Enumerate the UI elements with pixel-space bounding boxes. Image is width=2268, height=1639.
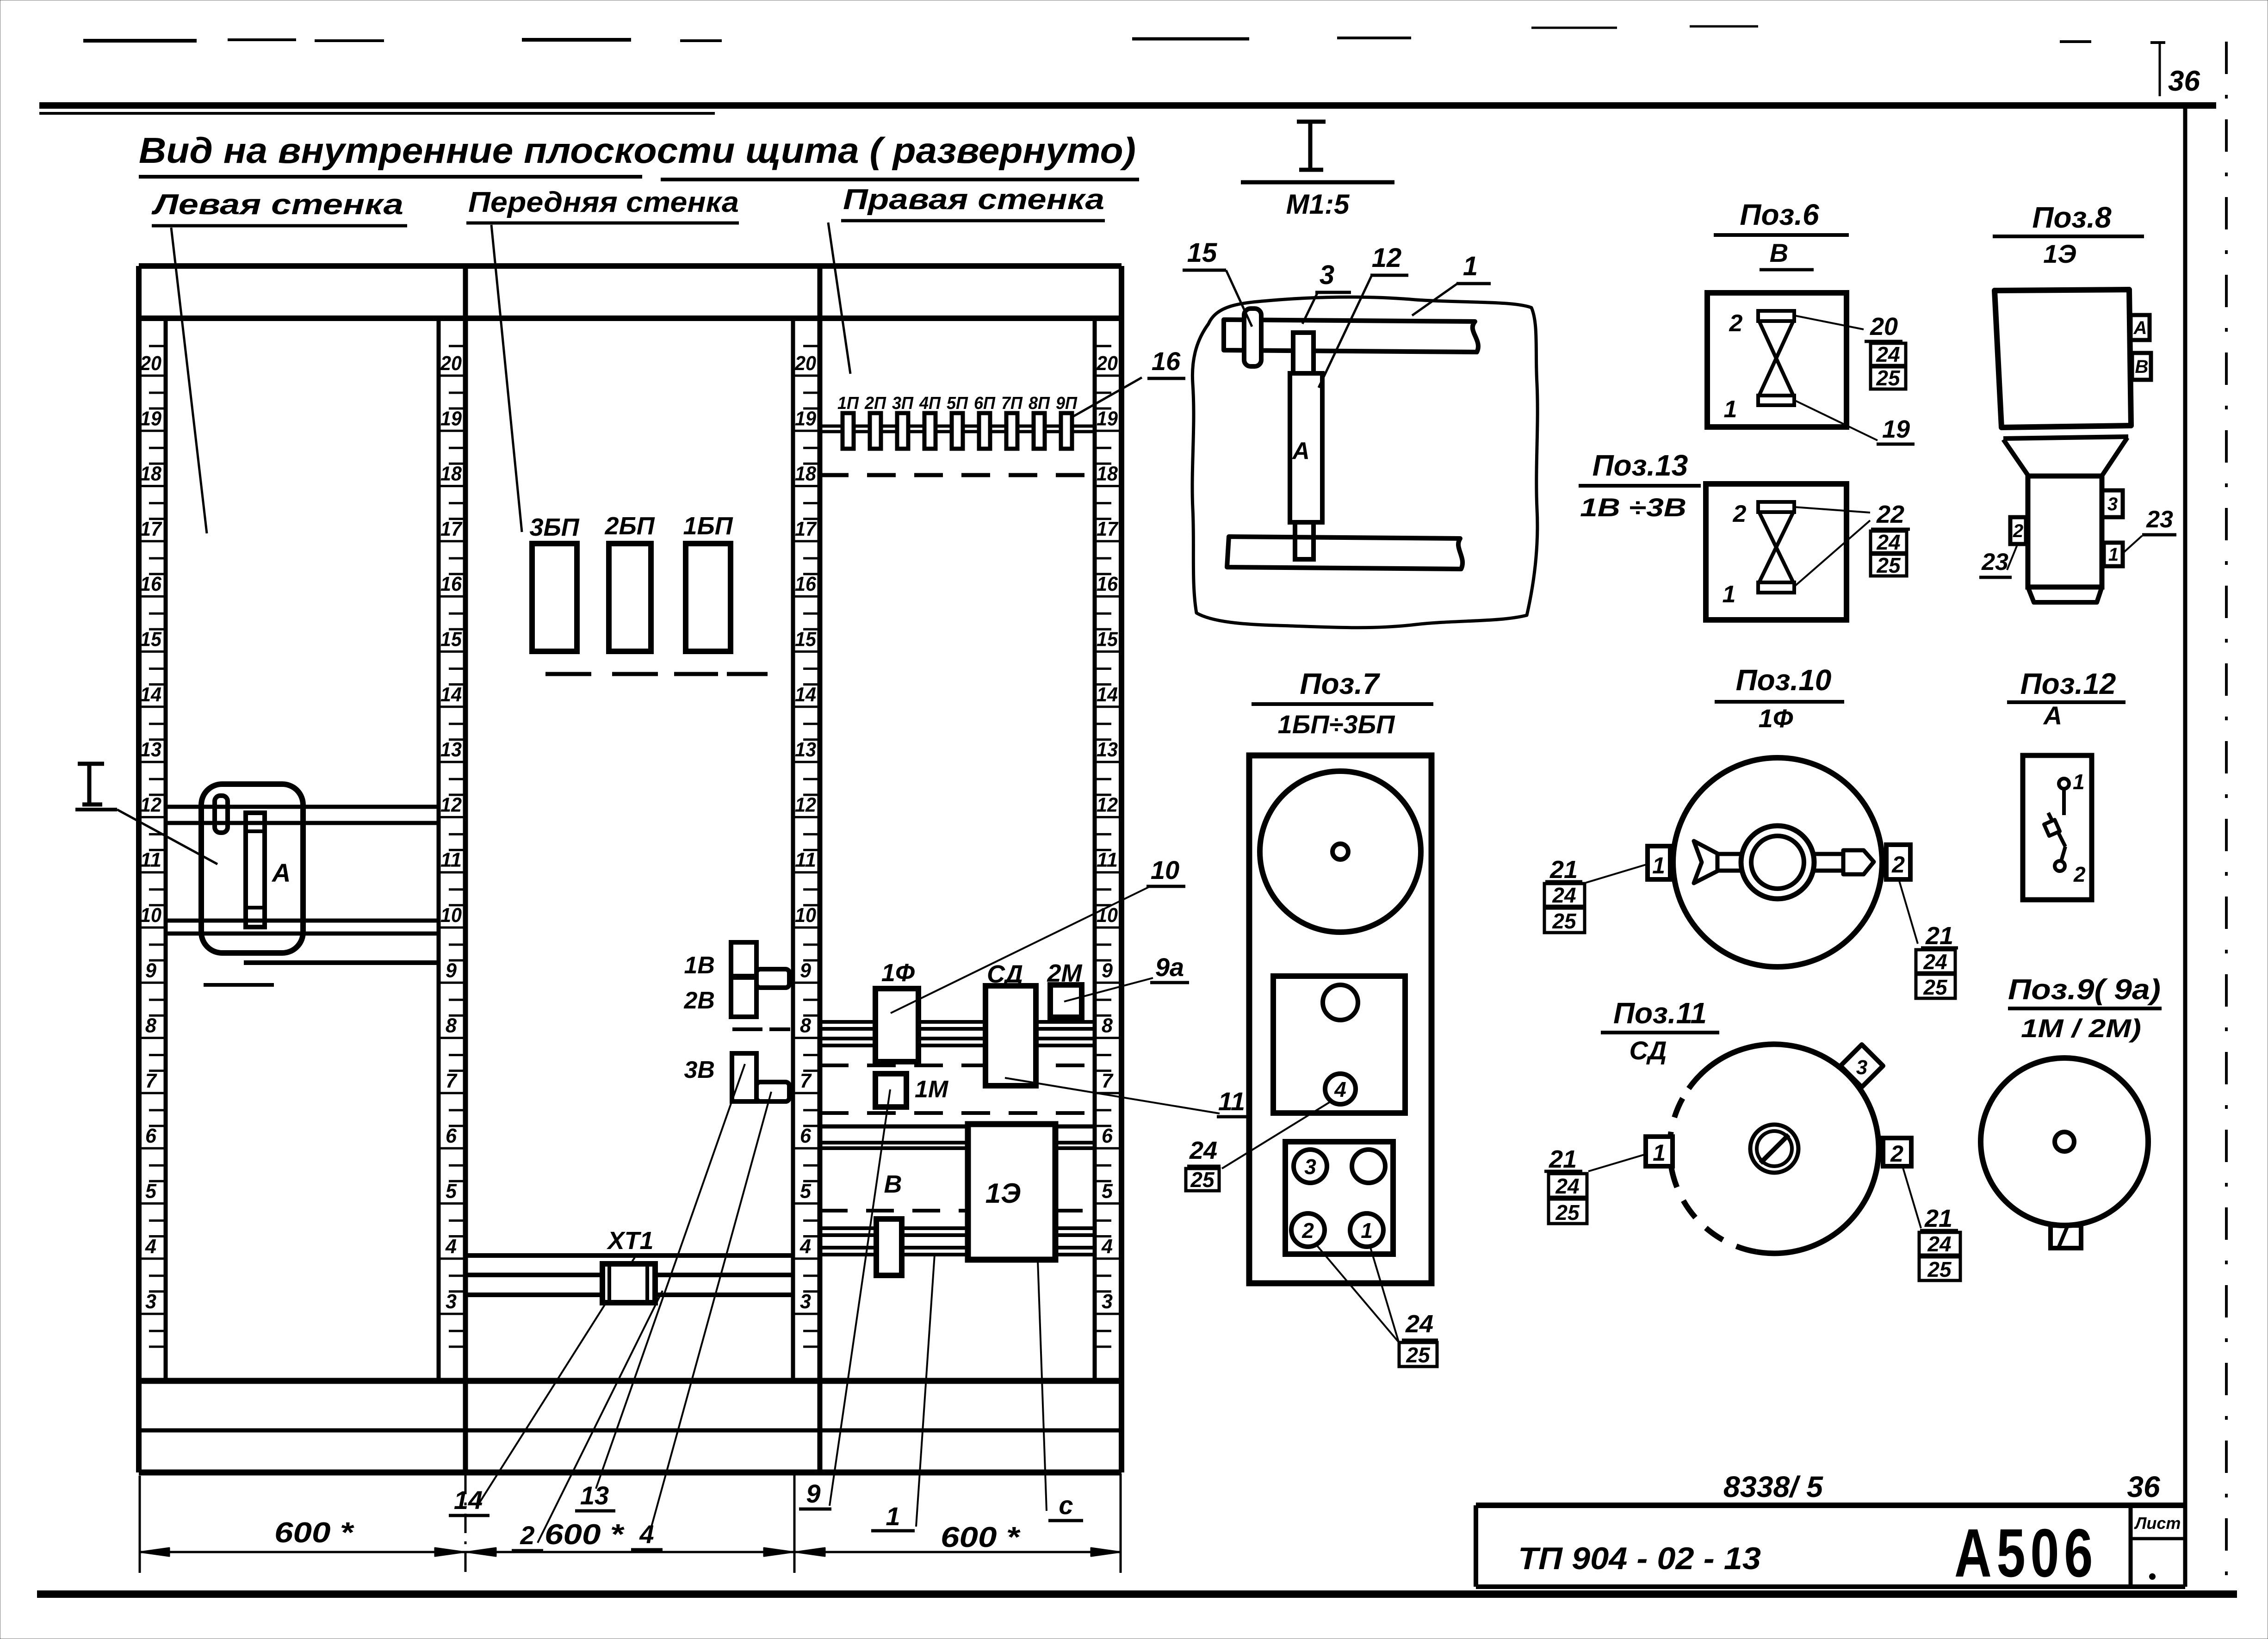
svg-text:4: 4 (1101, 1235, 1113, 1258)
svg-text:13: 13 (795, 738, 816, 761)
svg-text:В: В (2135, 357, 2149, 377)
svg-text:1М / 2М): 1М / 2М) (2021, 1014, 2141, 1043)
svg-text:3БП: 3БП (529, 513, 579, 541)
svg-text:Поз.11: Поз.11 (1613, 996, 1707, 1030)
svg-text:4: 4 (639, 1520, 654, 1549)
svg-text:14: 14 (440, 683, 462, 706)
svg-text:2: 2 (520, 1521, 534, 1550)
svg-text:3: 3 (446, 1290, 457, 1313)
svg-text:7П: 7П (1001, 394, 1023, 413)
svg-text:4: 4 (445, 1235, 457, 1258)
svg-text:2: 2 (1890, 1141, 1903, 1167)
svg-text:8: 8 (1102, 1014, 1113, 1037)
svg-text:24: 24 (1927, 1232, 1951, 1256)
svg-text:5: 5 (446, 1180, 457, 1203)
svg-text:11: 11 (1218, 1087, 1245, 1116)
svg-text:18: 18 (1097, 463, 1118, 485)
svg-text:14: 14 (140, 683, 161, 706)
svg-text:13: 13 (440, 738, 462, 761)
svg-text:25: 25 (1923, 975, 1948, 999)
svg-text:6П: 6П (974, 394, 996, 413)
svg-text:25: 25 (1876, 553, 1901, 577)
svg-text:7: 7 (800, 1070, 812, 1092)
svg-text:9: 9 (446, 959, 457, 982)
svg-text:25: 25 (1927, 1257, 1952, 1281)
svg-text:21: 21 (1924, 1205, 1952, 1232)
svg-text:4: 4 (145, 1235, 156, 1258)
svg-text:6: 6 (800, 1125, 812, 1147)
svg-text:1: 1 (1361, 1218, 1373, 1243)
svg-text:1БП: 1БП (683, 512, 733, 540)
svg-text:25: 25 (1552, 909, 1577, 933)
svg-text:12: 12 (1372, 243, 1402, 273)
svg-text:А506: А506 (1954, 1515, 2098, 1591)
svg-text:14: 14 (1097, 683, 1118, 706)
svg-text:Поз.6: Поз.6 (1740, 198, 1819, 231)
svg-text:19: 19 (1097, 407, 1118, 430)
svg-text:1: 1 (1652, 853, 1665, 878)
svg-text:ХТ1: ХТ1 (606, 1227, 653, 1255)
svg-text:21: 21 (1549, 1145, 1577, 1173)
svg-text:13: 13 (580, 1481, 609, 1510)
svg-text:17: 17 (140, 518, 162, 540)
svg-text:1Ф: 1Ф (1759, 704, 1793, 733)
svg-text:3: 3 (1304, 1155, 1316, 1179)
svg-text:2: 2 (1301, 1218, 1314, 1243)
svg-text:3: 3 (2107, 494, 2118, 514)
svg-text:Левая стенка: Левая стенка (151, 189, 403, 221)
svg-text:17: 17 (440, 518, 463, 540)
svg-text:11: 11 (440, 849, 462, 872)
svg-text:7: 7 (446, 1070, 458, 1092)
svg-text:3: 3 (1856, 1056, 1867, 1079)
svg-text:8: 8 (145, 1014, 157, 1037)
svg-text:Передняя стенка: Передняя стенка (468, 186, 739, 218)
svg-text:3: 3 (800, 1290, 811, 1313)
svg-text:16: 16 (440, 573, 462, 595)
svg-text:9: 9 (1102, 959, 1113, 982)
svg-text:15: 15 (140, 628, 161, 651)
svg-text:8: 8 (800, 1014, 812, 1037)
svg-text:2: 2 (2013, 521, 2023, 541)
svg-text:25: 25 (1406, 1343, 1431, 1367)
svg-text:20: 20 (140, 352, 161, 375)
svg-text:1: 1 (1724, 396, 1737, 423)
svg-text:19: 19 (140, 407, 161, 430)
svg-text:ТП 904 - 02 - 13: ТП 904 - 02 - 13 (1518, 1541, 1761, 1576)
svg-text:600 *: 600 * (274, 1517, 354, 1549)
svg-text:16: 16 (1152, 346, 1181, 376)
svg-text:24: 24 (1189, 1137, 1217, 1164)
svg-text:25: 25 (1876, 366, 1901, 390)
svg-text:11: 11 (795, 849, 816, 872)
svg-text:24: 24 (1552, 883, 1576, 907)
svg-text:1В ÷3В: 1В ÷3В (1580, 493, 1686, 522)
svg-text:3: 3 (1320, 260, 1334, 290)
svg-text:В: В (1770, 238, 1788, 267)
svg-text:А: А (1291, 438, 1310, 464)
svg-text:19: 19 (440, 407, 462, 430)
svg-text:21: 21 (1549, 856, 1578, 884)
svg-text:8338/ 5: 8338/ 5 (1723, 1470, 1823, 1503)
svg-text:600 *: 600 * (941, 1521, 1021, 1553)
svg-text:12: 12 (140, 793, 161, 816)
svg-text:36: 36 (2168, 65, 2200, 97)
svg-text:1: 1 (1653, 1140, 1666, 1166)
svg-text:7: 7 (1102, 1070, 1114, 1092)
svg-text:15: 15 (1097, 628, 1118, 651)
svg-text:1В: 1В (684, 952, 715, 979)
svg-text:18: 18 (795, 463, 816, 485)
svg-text:1М: 1М (915, 1076, 949, 1103)
svg-text:14: 14 (795, 683, 816, 706)
svg-text:12: 12 (1097, 793, 1118, 816)
svg-text:36: 36 (2127, 1470, 2160, 1503)
svg-text:2: 2 (2073, 862, 2086, 886)
svg-text:10: 10 (140, 904, 161, 927)
svg-text:5: 5 (145, 1180, 157, 1203)
svg-text:4: 4 (1334, 1077, 1346, 1101)
svg-text:19: 19 (795, 407, 816, 430)
svg-text:3П: 3П (892, 394, 914, 413)
svg-text:9а: 9а (1155, 952, 1184, 982)
svg-text:4: 4 (799, 1235, 811, 1258)
svg-text:9П: 9П (1056, 394, 1078, 413)
svg-text:СД: СД (987, 960, 1023, 988)
svg-text:Правая стенка: Правая стенка (843, 184, 1104, 216)
svg-text:1: 1 (886, 1502, 900, 1531)
svg-text:17: 17 (1097, 518, 1119, 540)
svg-text:24: 24 (1876, 342, 1900, 366)
svg-text:25: 25 (1555, 1200, 1580, 1225)
svg-text:1: 1 (2108, 544, 2119, 565)
svg-text:18: 18 (440, 463, 462, 485)
svg-text:16: 16 (795, 573, 816, 595)
svg-text:15: 15 (795, 628, 816, 651)
svg-text:10: 10 (1151, 855, 1179, 884)
svg-text:2: 2 (1729, 310, 1743, 337)
svg-text:5П: 5П (947, 394, 968, 413)
svg-text:Поз.12: Поз.12 (2020, 667, 2116, 700)
svg-text:12: 12 (440, 793, 462, 816)
svg-text:16: 16 (140, 573, 161, 595)
svg-text:21: 21 (1925, 922, 1953, 950)
svg-text:23: 23 (2146, 506, 2173, 533)
svg-text:6: 6 (145, 1125, 157, 1147)
svg-text:2: 2 (1891, 852, 1905, 878)
svg-text:6: 6 (1102, 1125, 1113, 1147)
svg-text:3: 3 (145, 1290, 156, 1313)
svg-text:1БП÷3БП: 1БП÷3БП (1278, 710, 1396, 739)
svg-text:17: 17 (795, 518, 817, 540)
svg-text:Поз.10: Поз.10 (1736, 663, 1832, 697)
svg-text:Поз.8: Поз.8 (2032, 201, 2112, 234)
svg-text:20: 20 (1870, 313, 1898, 340)
svg-text:11: 11 (140, 849, 161, 872)
svg-text:2М: 2М (1047, 959, 1082, 987)
svg-text:В: В (884, 1170, 902, 1198)
svg-text:М1:5: М1:5 (1286, 189, 1350, 220)
svg-text:19: 19 (1882, 415, 1910, 443)
svg-text:10: 10 (440, 904, 462, 927)
svg-text:2: 2 (1733, 501, 1747, 527)
svg-text:7: 7 (145, 1070, 157, 1092)
svg-text:24: 24 (1923, 950, 1947, 974)
svg-text:1Ф: 1Ф (881, 959, 915, 987)
svg-text:1: 1 (1463, 251, 1478, 281)
svg-text:1Э: 1Э (2043, 239, 2076, 268)
svg-text:15: 15 (1187, 238, 1217, 268)
svg-text:СД: СД (1630, 1036, 1667, 1065)
svg-text:600 *: 600 * (545, 1519, 625, 1551)
svg-text:11: 11 (1097, 849, 1118, 872)
svg-text:2БП: 2БП (604, 512, 655, 540)
svg-text:6: 6 (446, 1125, 457, 1147)
svg-text:4П: 4П (919, 394, 941, 413)
svg-text:5: 5 (800, 1180, 812, 1203)
svg-text:13: 13 (140, 738, 161, 761)
svg-text:А: А (2133, 318, 2147, 338)
svg-text:13: 13 (1097, 738, 1118, 761)
svg-text:2П: 2П (864, 394, 886, 413)
svg-text:23: 23 (1981, 549, 2008, 575)
svg-text:8П: 8П (1029, 394, 1050, 413)
svg-text:3: 3 (1102, 1290, 1113, 1313)
svg-text:22: 22 (1876, 501, 1904, 528)
svg-text:А: А (2043, 701, 2062, 730)
svg-text:18: 18 (140, 463, 161, 485)
svg-text:20: 20 (794, 352, 816, 375)
svg-text:Поз.7: Поз.7 (1300, 667, 1381, 700)
svg-text:25: 25 (1190, 1168, 1215, 1192)
svg-text:14: 14 (454, 1485, 483, 1515)
svg-text:1П: 1П (837, 394, 859, 413)
svg-text:24: 24 (1876, 530, 1900, 554)
svg-text:20: 20 (1096, 352, 1118, 375)
svg-text:8: 8 (446, 1014, 457, 1037)
svg-text:Вид на внутренние плоскости щи: Вид на внутренние плоскости щита ( разве… (139, 130, 1136, 171)
svg-text:24: 24 (1555, 1174, 1579, 1198)
svg-text:Поз.9( 9а): Поз.9( 9а) (2008, 974, 2161, 1006)
svg-text:Поз.13: Поз.13 (1593, 449, 1688, 482)
svg-text:12: 12 (795, 793, 816, 816)
svg-text:1: 1 (2073, 770, 2085, 794)
svg-text:5: 5 (1102, 1180, 1113, 1203)
svg-text:3В: 3В (684, 1057, 715, 1083)
svg-text:9: 9 (800, 959, 812, 982)
svg-text:24: 24 (1405, 1310, 1433, 1338)
svg-text:2В: 2В (684, 987, 715, 1014)
svg-text:9: 9 (806, 1479, 820, 1508)
svg-text:9: 9 (145, 959, 157, 982)
svg-text:А: А (271, 858, 291, 887)
svg-text:1Э: 1Э (985, 1178, 1021, 1209)
svg-text:20: 20 (440, 352, 462, 375)
svg-text:с: с (1059, 1491, 1073, 1520)
svg-text:15: 15 (440, 628, 462, 651)
svg-text:1: 1 (1723, 581, 1736, 608)
svg-text:16: 16 (1097, 573, 1118, 595)
svg-text:Лист: Лист (2134, 1514, 2181, 1533)
svg-text:10: 10 (795, 904, 816, 927)
